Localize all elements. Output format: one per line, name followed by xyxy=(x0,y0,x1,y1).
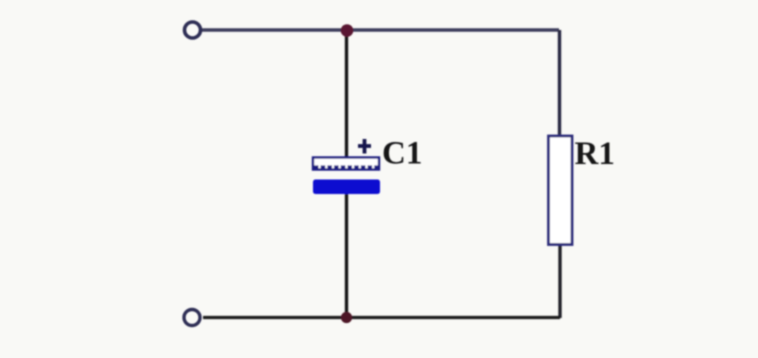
node junction top xyxy=(341,24,354,37)
wire top rail xyxy=(201,28,559,32)
resistor R1 xyxy=(549,136,573,245)
wire capacitor branch lower xyxy=(345,192,348,318)
capacitor C1 top plate xyxy=(313,158,379,170)
svg-text:R1: R1 xyxy=(575,136,615,172)
node junction bottom xyxy=(341,312,352,323)
wire right branch lower xyxy=(558,244,561,318)
capacitor C1 polarity plus xyxy=(358,139,371,154)
capacitor C1 bottom plate xyxy=(313,180,380,195)
wire bottom rail xyxy=(203,316,560,319)
wire capacitor branch upper xyxy=(345,30,348,158)
svg-text:C1: C1 xyxy=(382,136,422,172)
wire right branch upper xyxy=(558,30,561,137)
terminal top-left xyxy=(185,22,201,38)
terminal bottom-left xyxy=(184,310,200,326)
